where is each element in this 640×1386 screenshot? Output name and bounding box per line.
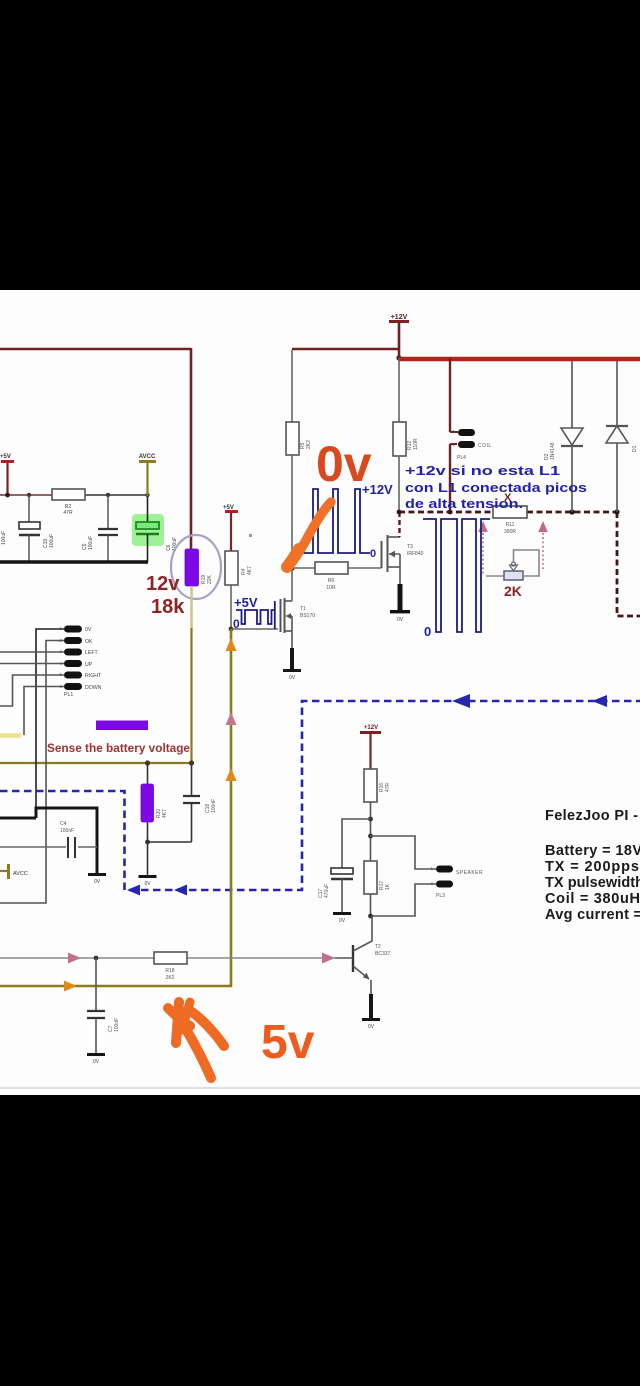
resistor R6 bbox=[315, 562, 348, 574]
resistor R11 bbox=[493, 506, 527, 518]
capacitor C19 bbox=[28, 495, 30, 522]
wire: speaker pin2 to collector bbox=[372, 884, 436, 916]
svg-text:de alta tension.: de alta tension. bbox=[405, 497, 523, 511]
annotation: +12V pulse train bbox=[298, 489, 370, 553]
wire: bright red thick rail to right edge bbox=[399, 357, 640, 362]
arrowhead orange up2 bbox=[226, 768, 237, 781]
resistor R17 bbox=[364, 861, 377, 894]
svg-text:47R: 47R bbox=[385, 782, 391, 792]
wire: olive vertical below R19 bbox=[190, 586, 192, 763]
svg-text:100uF: 100uF bbox=[88, 536, 94, 550]
wire: node to R6 bbox=[292, 567, 315, 569]
wire: dark red vertical to R19 bbox=[190, 348, 193, 551]
power AVCC stub bbox=[0, 870, 7, 872]
svg-text:18k: 18k bbox=[151, 596, 185, 618]
svg-text:5v: 5v bbox=[261, 1016, 315, 1069]
svg-text:100nF: 100nF bbox=[211, 799, 217, 813]
wire: ground bus thick black bbox=[0, 560, 148, 563]
node C7 bbox=[94, 956, 99, 961]
capacitor C5 bbox=[107, 495, 109, 528]
svg-text:FelezJoo PI -: FelezJoo PI - bbox=[545, 808, 638, 824]
wire: R4 to gate node bbox=[230, 585, 232, 629]
wire: emitter ground bbox=[369, 994, 373, 1018]
capacitor C17 electrolytic bbox=[331, 868, 353, 874]
svg-text:0v: 0v bbox=[316, 436, 372, 492]
wire: thin through C4 bbox=[0, 846, 66, 848]
wire: gray horizontal to T2 base bbox=[0, 957, 154, 959]
wire: T1 source down + ground bbox=[291, 631, 293, 648]
svg-text:AVCC: AVCC bbox=[13, 871, 28, 877]
wire: branch to C17 bbox=[342, 819, 371, 868]
wire: coil pin2 down bbox=[450, 443, 457, 445]
wire: R5 to drain node bbox=[291, 455, 293, 568]
resistor R19 (purple highlighted) bbox=[185, 549, 199, 586]
svg-text:+5V: +5V bbox=[0, 454, 11, 460]
svg-text:+12V: +12V bbox=[364, 725, 378, 731]
wire: olive horizontal battery-sense bbox=[0, 762, 192, 764]
svg-text:RIGHT: RIGHT bbox=[85, 673, 102, 679]
wire: dashed maroon vertical right bbox=[617, 512, 640, 616]
wire: R6 to T3 gate bbox=[348, 567, 382, 569]
node gate bbox=[229, 627, 234, 632]
arrowhead pink up bbox=[226, 712, 237, 725]
svg-text:DOWN: DOWN bbox=[85, 685, 102, 691]
arrowhead blue big bbox=[452, 694, 470, 708]
svg-text:IRF840: IRF840 bbox=[407, 551, 424, 557]
SECTION: right info text block bbox=[545, 808, 640, 923]
svg-text:390R: 390R bbox=[504, 529, 516, 535]
top letterbox bar bbox=[0, 0, 640, 290]
connector PL4 coil bbox=[458, 429, 475, 436]
arrowhead blue small2 bbox=[174, 885, 187, 896]
svg-text:C4: C4 bbox=[60, 821, 67, 827]
svg-text:T1: T1 bbox=[300, 606, 306, 612]
svg-text:Coil = 380uH: Coil = 380uH bbox=[545, 891, 640, 907]
resistor R2 bbox=[52, 489, 85, 500]
svg-text:OK: OK bbox=[85, 639, 93, 645]
svg-text:AVCC: AVCC bbox=[139, 454, 156, 460]
svg-text:2K2: 2K2 bbox=[166, 975, 175, 981]
wire: R17 down to collector node bbox=[370, 894, 372, 916]
svg-text:D1: D1 bbox=[632, 445, 638, 452]
wire: +5V horizontal bus bbox=[0, 494, 52, 496]
svg-text:0V: 0V bbox=[85, 627, 92, 633]
annotation: tall pulse train with 0 bbox=[423, 519, 490, 632]
svg-text:0: 0 bbox=[233, 617, 240, 631]
resistor R18 bbox=[154, 952, 187, 964]
resistor R20 (purple highlighted) bbox=[141, 784, 154, 822]
wire: T3 drain to flyback node (dashed) bbox=[398, 512, 400, 537]
arrowhead blue small1 bbox=[127, 885, 140, 896]
svg-text:+12V: +12V bbox=[391, 314, 408, 321]
svg-text:10R: 10R bbox=[326, 585, 336, 591]
transistor T1 BS170 bbox=[280, 599, 282, 632]
svg-text:47R: 47R bbox=[63, 510, 73, 516]
arrowhead orange up1 bbox=[226, 638, 237, 651]
wire: branch to speaker pin1 bbox=[371, 836, 437, 869]
capacitor C18 bbox=[191, 763, 193, 795]
svg-text:+5V: +5V bbox=[234, 595, 258, 610]
connector PL1 pins bbox=[64, 626, 82, 691]
svg-text:110R: 110R bbox=[413, 438, 419, 450]
svg-text:PL3: PL3 bbox=[436, 893, 445, 899]
highlight ellipse around R19 bbox=[171, 535, 221, 599]
svg-text:R6: R6 bbox=[328, 578, 335, 584]
svg-text:UP: UP bbox=[85, 662, 93, 668]
tiny plus mark bbox=[249, 534, 252, 537]
svg-text:T2: T2 bbox=[375, 944, 381, 950]
svg-text:con L1 conectada picos: con L1 conectada picos bbox=[405, 481, 587, 495]
svg-text:100nF: 100nF bbox=[60, 828, 74, 834]
resistor R4 bbox=[225, 551, 238, 585]
node bbox=[145, 760, 150, 765]
svg-text:12v: 12v bbox=[146, 573, 180, 595]
wire: blue dashed bbox=[0, 701, 640, 890]
resistor R16 bbox=[364, 769, 377, 802]
connector PL3 speaker bbox=[436, 866, 453, 873]
wire: T1 drain up bbox=[291, 568, 293, 601]
pin numbers bbox=[59, 626, 62, 689]
svg-text:PL1: PL1 bbox=[64, 692, 73, 698]
svg-text:Sense the battery voltage: Sense the battery voltage bbox=[47, 743, 190, 755]
arrowhead orange right (bottom) bbox=[64, 981, 77, 992]
svg-text:0V: 0V bbox=[397, 617, 404, 623]
svg-text:1N4148: 1N4148 bbox=[550, 442, 556, 460]
purple marker rectangle bbox=[96, 721, 148, 731]
schematic white background bbox=[0, 290, 640, 1095]
svg-text:1K: 1K bbox=[385, 883, 391, 890]
svg-text:22K: 22K bbox=[207, 574, 213, 584]
wire: pin5 left bbox=[0, 675, 64, 706]
wire: pin4 left bbox=[0, 663, 64, 665]
potentiometer 2K bbox=[486, 575, 504, 577]
wire: R20 top bbox=[147, 763, 149, 785]
svg-text:TX pulsewidth: TX pulsewidth bbox=[545, 875, 640, 891]
resistor R5 bbox=[286, 422, 299, 455]
node dots on dashed net bbox=[397, 510, 402, 515]
svg-text:SPEAKER: SPEAKER bbox=[456, 870, 483, 876]
svg-text:2K: 2K bbox=[504, 583, 522, 599]
arrowhead blue right bbox=[592, 695, 607, 707]
yellow wire stub bbox=[0, 733, 21, 738]
svg-text:BC337: BC337 bbox=[375, 951, 391, 957]
capacitor C6 highlighted green bbox=[132, 514, 164, 546]
svg-text:R11: R11 bbox=[506, 522, 515, 528]
wire: dark red top horizontal rail bbox=[0, 348, 191, 351]
wire: R16 down bbox=[370, 802, 372, 861]
wire: pin3 left bbox=[0, 651, 64, 653]
svg-text:+12v si no esta L1: +12v si no esta L1 bbox=[405, 464, 560, 478]
transistor T3 IRF840 bbox=[381, 541, 383, 568]
arrowhead pink right1 bbox=[68, 957, 81, 959]
bottom frame line bbox=[0, 1087, 640, 1089]
wire: R12 down to flyback net bbox=[398, 456, 400, 512]
diode D1 bbox=[616, 361, 618, 426]
svg-text:R18: R18 bbox=[165, 968, 174, 974]
wire: pin1 to vertical bus bbox=[36, 629, 64, 808]
transistor T2 BC337 bbox=[352, 945, 354, 972]
wire: R5 vertical bbox=[291, 350, 293, 422]
wire: pin2 to vertical bus bbox=[0, 641, 64, 904]
capacitor C7 bbox=[95, 958, 97, 1010]
svg-text:Battery = 18V: Battery = 18V bbox=[545, 843, 640, 859]
wire: T3 source + ground bbox=[399, 567, 401, 584]
svg-text:0: 0 bbox=[370, 548, 376, 560]
svg-text:PL4: PL4 bbox=[457, 455, 466, 461]
svg-text:100nF: 100nF bbox=[114, 1018, 120, 1032]
wire: olive vertical bbox=[0, 629, 231, 986]
wire: R20 bottom to gnd bbox=[147, 822, 149, 875]
bottom letterbox bar bbox=[0, 1095, 640, 1386]
svg-text:TX = 200pps: TX = 200pps bbox=[545, 859, 639, 875]
pin labels bbox=[85, 627, 102, 691]
svg-text:2K2: 2K2 bbox=[306, 440, 312, 449]
wire: dark red horizontal to R5 branch bbox=[292, 348, 399, 351]
diode D2 1N4148 bbox=[571, 361, 573, 428]
node bbox=[189, 760, 194, 765]
orange marker swoosh bbox=[288, 502, 331, 567]
wire: +12V vertical entry bbox=[398, 323, 401, 359]
wire: dark red from +5V to R4 bbox=[230, 513, 232, 551]
svg-text:470uF: 470uF bbox=[324, 884, 330, 898]
wire: thick black left bbox=[0, 817, 36, 820]
wire: R12 vertical from rail bbox=[398, 358, 400, 422]
svg-text:0: 0 bbox=[424, 624, 431, 639]
svg-text:4K7: 4K7 bbox=[162, 809, 168, 818]
svg-text:BS170: BS170 bbox=[300, 613, 315, 619]
svg-text:COIL: COIL bbox=[478, 443, 492, 449]
wire: gate node to T1 gate bbox=[231, 628, 278, 630]
svg-text:Avg current =: Avg current = bbox=[545, 907, 640, 923]
wire: pin6 left-down bbox=[24, 687, 64, 736]
resistor R12 bbox=[393, 422, 406, 456]
capacitor C4 bbox=[67, 837, 69, 858]
svg-text:T3: T3 bbox=[407, 544, 413, 550]
pink dotted feedback left + arrow bbox=[482, 533, 484, 576]
pink dotted feedback right + arrow bbox=[542, 533, 544, 572]
svg-text:100uF: 100uF bbox=[49, 534, 55, 548]
wire: dashed maroon horizontal bbox=[399, 511, 493, 514]
orange hand-drawn arrow bbox=[184, 1026, 211, 1078]
node dots on +5V bus bbox=[5, 493, 10, 498]
svg-text:LEFT: LEFT bbox=[85, 650, 99, 656]
node drain T1 bbox=[289, 565, 294, 570]
svg-text:4K7: 4K7 bbox=[247, 566, 253, 575]
svg-text:100uF: 100uF bbox=[1, 531, 7, 545]
arrowhead pink right2 bbox=[322, 953, 335, 964]
wire: coil feed dark red bbox=[449, 358, 451, 432]
